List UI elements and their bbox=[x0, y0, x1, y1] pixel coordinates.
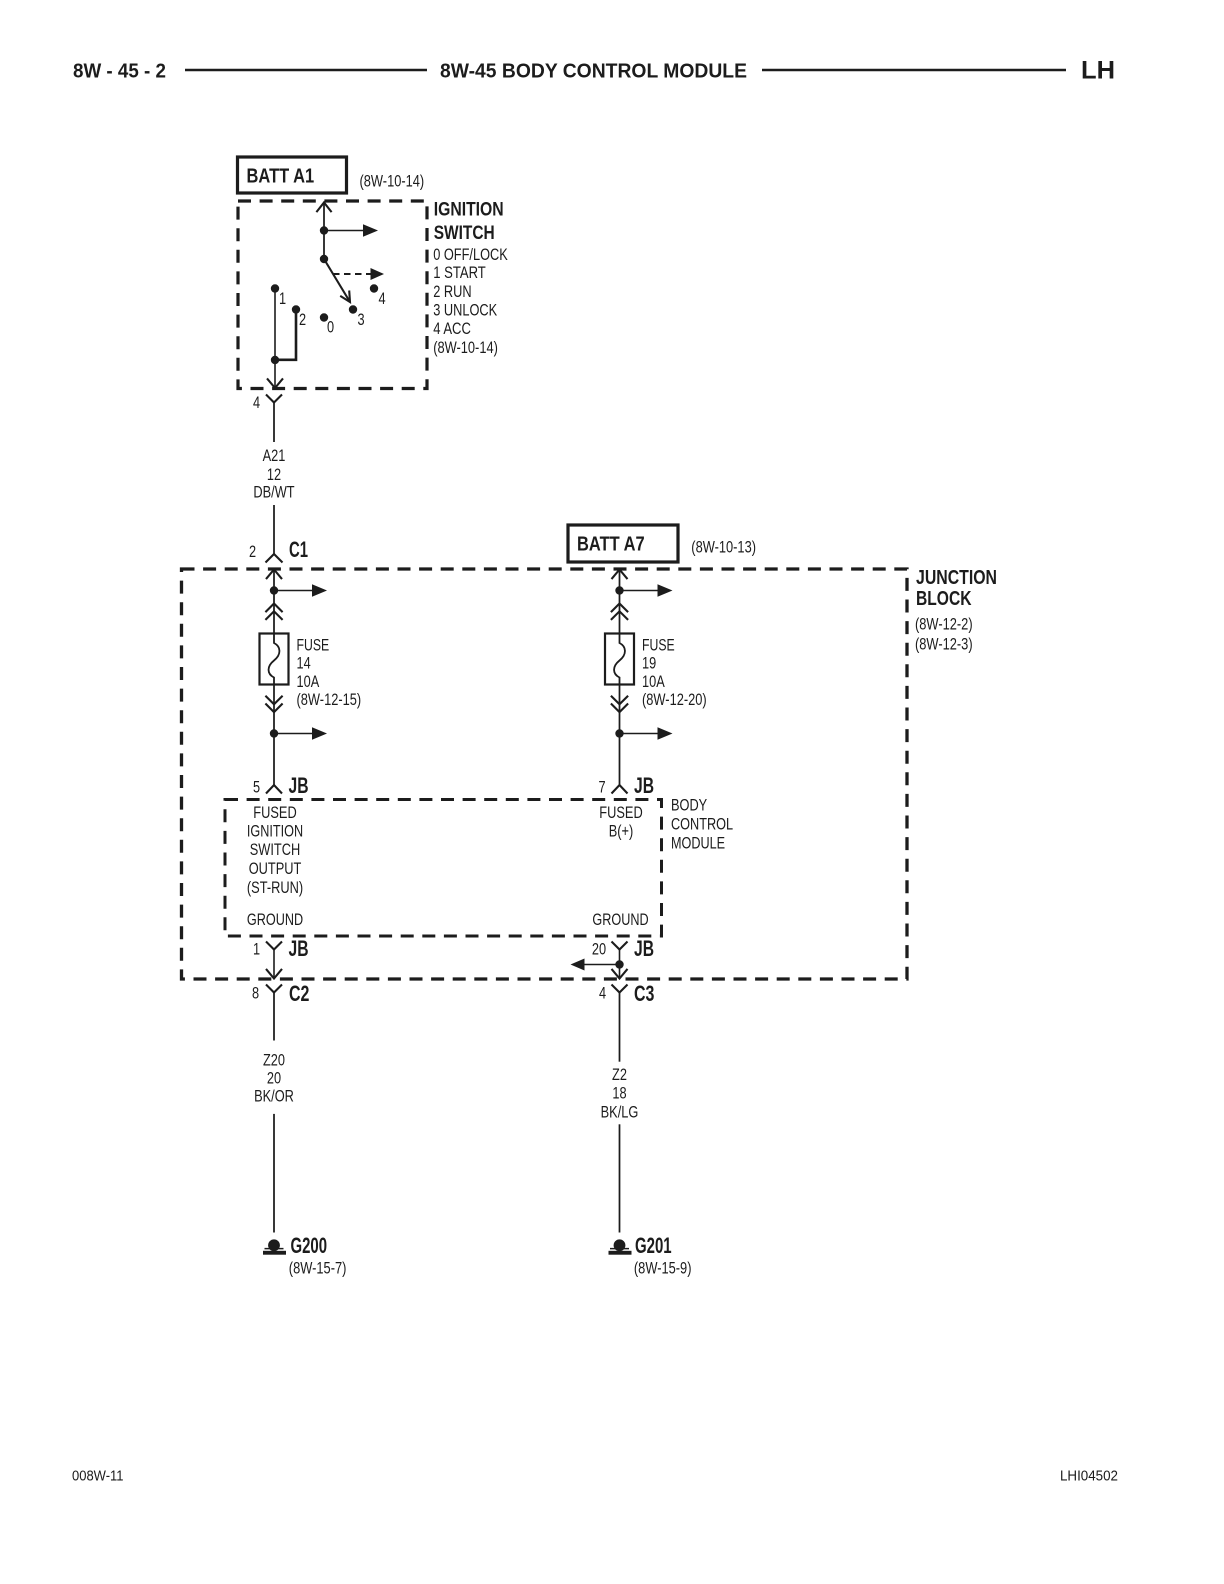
bus continuation double chevron below fuse bbox=[611, 696, 628, 712]
reference (8W-10-13) for BATT A7 bbox=[691, 539, 756, 557]
svg-text:IGNITION: IGNITION bbox=[247, 823, 303, 841]
svg-text:2: 2 bbox=[249, 543, 256, 561]
svg-text:C2: C2 bbox=[289, 981, 309, 1006]
svg-text:4: 4 bbox=[599, 984, 606, 1002]
svg-text:4: 4 bbox=[378, 290, 385, 308]
connector pin 4 below ignition switch bbox=[253, 394, 282, 412]
svg-text:Z2: Z2 bbox=[612, 1066, 627, 1084]
wire bbox=[273, 685, 275, 786]
fuse 19 bbox=[605, 634, 634, 685]
svg-text:A21: A21 bbox=[263, 447, 286, 465]
svg-text:(8W-12-3): (8W-12-3) bbox=[915, 635, 973, 653]
svg-text:DB/WT: DB/WT bbox=[253, 483, 294, 501]
ignition switch node START output bbox=[320, 224, 378, 236]
svg-text:(8W-10-14): (8W-10-14) bbox=[433, 339, 498, 357]
svg-text:(ST-RUN): (ST-RUN) bbox=[247, 879, 303, 897]
header LH bbox=[1081, 57, 1115, 85]
svg-text:JB: JB bbox=[634, 773, 654, 798]
svg-text:4: 4 bbox=[253, 394, 260, 412]
body control module name bbox=[671, 797, 733, 853]
fused output node with arrow bbox=[615, 727, 672, 739]
BCM pin function: fused ignition switch output bbox=[247, 804, 303, 897]
ignition switch wiper pivot node bbox=[320, 255, 328, 263]
svg-text:FUSED: FUSED bbox=[253, 804, 296, 822]
svg-text:(8W-12-15): (8W-12-15) bbox=[297, 691, 362, 709]
svg-text:SWITCH: SWITCH bbox=[250, 841, 301, 859]
junction block distribution node with arrow bbox=[270, 584, 327, 596]
svg-text:(8W-15-9): (8W-15-9) bbox=[634, 1260, 692, 1278]
connector JB pin 7 bbox=[598, 773, 654, 798]
connector JB pin 5 bbox=[253, 773, 309, 798]
male terminal leaving junction block right bbox=[612, 969, 628, 979]
bus continuation double chevron bbox=[611, 604, 628, 620]
header rule left bbox=[185, 69, 427, 72]
svg-text:(8W-10-13): (8W-10-13) bbox=[691, 539, 756, 557]
ground designator G201 bbox=[635, 1233, 672, 1258]
svg-text:CONTROL: CONTROL bbox=[671, 815, 733, 833]
svg-text:FUSE: FUSE bbox=[297, 636, 330, 654]
reference (8W-10-14) for BATT A1 bbox=[360, 172, 425, 190]
svg-text:G201: G201 bbox=[635, 1233, 672, 1258]
ground designator G200 bbox=[291, 1233, 328, 1258]
svg-text:(8W-12-2): (8W-12-2) bbox=[915, 615, 973, 633]
ignition switch contact 3 bbox=[349, 305, 365, 329]
fuse 19 labels bbox=[642, 636, 707, 709]
svg-text:SWITCH: SWITCH bbox=[434, 222, 495, 244]
svg-text:10A: 10A bbox=[297, 673, 320, 691]
wire contact 2 to output junction bbox=[275, 310, 296, 360]
junction block references bbox=[915, 615, 973, 653]
wire Z20 lower segment bbox=[273, 1114, 275, 1233]
svg-text:1: 1 bbox=[279, 290, 286, 308]
connector C3 pin 4 bbox=[599, 981, 654, 1006]
svg-text:B(+): B(+) bbox=[609, 823, 634, 841]
svg-text:Z20: Z20 bbox=[263, 1052, 285, 1070]
ignition switch wiper arm toward contact 3 bbox=[324, 259, 350, 302]
wire Z2 upper segment bbox=[619, 993, 621, 1062]
wire Z2 lower segment bbox=[619, 1124, 621, 1232]
svg-text:1: 1 bbox=[253, 940, 260, 958]
svg-text:G200: G200 bbox=[291, 1233, 328, 1258]
svg-text:FUSE: FUSE bbox=[642, 636, 675, 654]
svg-text:7: 7 bbox=[598, 778, 605, 796]
svg-text:3: 3 bbox=[357, 311, 364, 329]
svg-text:BK/OR: BK/OR bbox=[254, 1088, 294, 1106]
svg-text:1 START: 1 START bbox=[433, 264, 486, 282]
wire A21 upper segment bbox=[273, 403, 275, 443]
fuse 14 labels bbox=[297, 636, 362, 709]
svg-text:JB: JB bbox=[634, 936, 654, 961]
header page number bbox=[73, 59, 166, 82]
ground symbol G200 bbox=[263, 1239, 286, 1254]
svg-text:(8W-12-20): (8W-12-20) bbox=[642, 691, 707, 709]
svg-text:0: 0 bbox=[327, 318, 334, 336]
bus continuation double chevron bbox=[265, 604, 282, 620]
BCM pin function: fused B(+) bbox=[599, 804, 642, 841]
BCM pin function: ground left bbox=[247, 911, 303, 929]
ground symbol G201 bbox=[609, 1239, 632, 1254]
svg-text:C1: C1 bbox=[289, 537, 308, 562]
header title bbox=[440, 59, 747, 82]
ignition switch feed arrow to BATT A1 bbox=[316, 203, 331, 231]
svg-text:18: 18 bbox=[612, 1085, 626, 1103]
svg-text:5: 5 bbox=[253, 778, 260, 796]
svg-text:BK/LG: BK/LG bbox=[601, 1104, 639, 1122]
wire contact 1 to output junction bbox=[274, 289, 276, 361]
male terminal entering junction block bbox=[612, 570, 628, 634]
svg-text:8W - 45 - 2: 8W - 45 - 2 bbox=[73, 59, 166, 82]
wire bbox=[323, 231, 325, 260]
svg-text:(8W-10-14): (8W-10-14) bbox=[360, 172, 425, 190]
wire bbox=[619, 685, 621, 786]
battery feed box BATT A1 bbox=[238, 157, 347, 193]
ignition switch contact 2 bbox=[292, 305, 306, 329]
connector JB pin 1 (ground out of BCM left) bbox=[253, 936, 309, 961]
svg-text:LH: LH bbox=[1081, 57, 1115, 85]
svg-text:C3: C3 bbox=[634, 981, 654, 1006]
svg-text:008W-11: 008W-11 bbox=[72, 1469, 124, 1485]
svg-text:BATT A7: BATT A7 bbox=[577, 534, 645, 556]
male terminal entering junction block bbox=[266, 570, 282, 634]
bus continuation double chevron below fuse bbox=[265, 696, 282, 712]
svg-text:10A: 10A bbox=[642, 673, 665, 691]
fuse 14 bbox=[260, 634, 289, 685]
ignition switch position legend bbox=[433, 246, 508, 357]
svg-text:JB: JB bbox=[289, 773, 309, 798]
wire label A21 12 DB/WT bbox=[253, 447, 294, 502]
svg-text:4 ACC: 4 ACC bbox=[433, 320, 471, 338]
svg-text:JUNCTION: JUNCTION bbox=[916, 567, 997, 589]
ignition switch dashed box bbox=[238, 201, 427, 389]
connector C2 pin 8 bbox=[252, 981, 309, 1006]
ignition switch contact 0 bbox=[320, 313, 334, 336]
svg-text:BLOCK: BLOCK bbox=[916, 588, 972, 610]
svg-text:8: 8 bbox=[252, 984, 259, 1002]
svg-text:0 OFF/LOCK: 0 OFF/LOCK bbox=[433, 246, 508, 264]
reference (8W-15-7) bbox=[289, 1260, 347, 1278]
wire label Z2 18 BK/LG bbox=[601, 1066, 639, 1122]
svg-text:19: 19 bbox=[642, 655, 656, 673]
ignition switch name bbox=[434, 199, 504, 245]
ignition switch contact 4 bbox=[370, 284, 386, 308]
svg-text:8W-45 BODY CONTROL MODULE: 8W-45 BODY CONTROL MODULE bbox=[440, 59, 747, 82]
ground splice node with arrow pointing left bbox=[571, 950, 624, 979]
junction block dashed box bbox=[182, 569, 908, 979]
svg-text:BATT A1: BATT A1 bbox=[247, 166, 315, 188]
svg-text:GROUND: GROUND bbox=[592, 911, 648, 929]
wire Z20 upper segment bbox=[273, 993, 275, 1041]
svg-text:2: 2 bbox=[299, 311, 306, 329]
junction block name bbox=[916, 567, 997, 610]
fused output node with arrow bbox=[270, 727, 327, 739]
svg-text:GROUND: GROUND bbox=[247, 911, 303, 929]
footer sheet number bbox=[72, 1469, 124, 1485]
footer drawing id bbox=[1060, 1469, 1118, 1485]
svg-text:IGNITION: IGNITION bbox=[434, 199, 504, 221]
wire label Z20 20 BK/OR bbox=[254, 1052, 294, 1106]
svg-text:FUSED: FUSED bbox=[599, 804, 642, 822]
junction block distribution node with arrow bbox=[615, 584, 672, 596]
svg-text:2 RUN: 2 RUN bbox=[433, 283, 471, 301]
svg-text:JB: JB bbox=[289, 936, 309, 961]
wire A21 lower segment bbox=[273, 505, 275, 554]
body control module dashed box bbox=[225, 800, 662, 937]
svg-text:14: 14 bbox=[297, 655, 311, 673]
ignition switch contact 1 bbox=[271, 284, 286, 308]
connector C1 pin 2 bbox=[249, 537, 308, 563]
svg-text:20: 20 bbox=[592, 940, 606, 958]
svg-text:20: 20 bbox=[267, 1069, 281, 1087]
svg-text:(8W-15-7): (8W-15-7) bbox=[289, 1260, 347, 1278]
battery feed box BATT A7 bbox=[568, 525, 678, 562]
reference (8W-15-9) bbox=[634, 1260, 692, 1278]
svg-text:12: 12 bbox=[267, 466, 281, 484]
switch output wire with arrow at box edge bbox=[267, 360, 283, 388]
ignition switch RUN dashed arrow bbox=[333, 268, 384, 280]
connector JB pin 20 (ground out of BCM right) bbox=[592, 936, 654, 961]
junction node of switch output bbox=[271, 356, 279, 364]
header rule right bbox=[762, 69, 1066, 72]
wire with male terminal leaving junction block left bbox=[266, 950, 282, 979]
svg-text:3 UNLOCK: 3 UNLOCK bbox=[433, 301, 497, 319]
svg-text:OUTPUT: OUTPUT bbox=[249, 860, 302, 878]
svg-text:BODY: BODY bbox=[671, 797, 707, 815]
svg-text:LHI04502: LHI04502 bbox=[1060, 1469, 1118, 1485]
BCM pin function: ground right bbox=[592, 911, 648, 929]
svg-text:MODULE: MODULE bbox=[671, 834, 725, 852]
